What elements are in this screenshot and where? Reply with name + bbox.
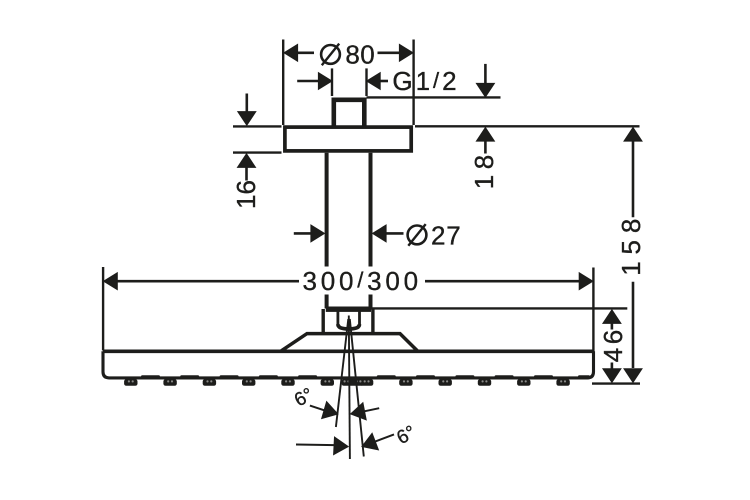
svg-text:16: 16 bbox=[231, 180, 261, 209]
svg-text:80: 80 bbox=[345, 39, 375, 69]
svg-text:G1/2: G1/2 bbox=[392, 66, 459, 96]
svg-text:300/300: 300/300 bbox=[302, 266, 421, 296]
svg-text:27: 27 bbox=[431, 220, 462, 250]
svg-text:158: 158 bbox=[616, 219, 646, 276]
